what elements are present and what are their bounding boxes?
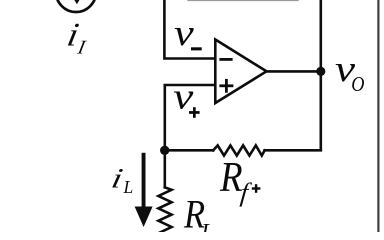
- current source I_I: [56, 0, 96, 12]
- svg-text:L: L: [123, 177, 134, 197]
- resistor Rf+: [213, 145, 264, 155]
- node vO junction dot: [316, 67, 325, 76]
- svg-text:v: v: [173, 75, 194, 116]
- op-amp U1: [215, 40, 266, 104]
- arrow i_L (load current): [135, 153, 153, 227]
- svg-text:v: v: [174, 13, 195, 54]
- label R_L: [183, 193, 214, 240]
- svg-text:f: f: [239, 177, 253, 207]
- label v_O: [335, 48, 364, 96]
- label v-: [174, 13, 202, 54]
- wire: non-inverting input L from node: [165, 85, 215, 150]
- label v+: [173, 75, 199, 118]
- wire: op-amp output to vO node: [267, 70, 321, 73]
- wire: left vertical into inverting input: [164, 0, 215, 59]
- node: junction dot at v+ / load: [160, 146, 169, 155]
- wire: right vertical through vO down to feedback corner: [319, 0, 322, 150]
- top wire (cropped at image edge): [188, 0, 298, 2]
- label i_I: [64, 16, 88, 58]
- label R_f+: [219, 154, 260, 207]
- wire: node down to RL: [164, 150, 167, 187]
- svg-text:O: O: [351, 72, 364, 96]
- wire: bottom feedback horizontal (right part): [265, 149, 321, 152]
- resistor RL: [158, 187, 171, 233]
- svg-text:R: R: [219, 154, 243, 201]
- op-amp inverting pin marker: [221, 58, 231, 61]
- op-amp non-inverting pin marker: [221, 80, 232, 91]
- svg-text:L: L: [200, 219, 213, 232]
- label i_L: [109, 162, 133, 197]
- right page border line: [377, 0, 379, 232]
- wire: bottom feedback horizontal (left part): [165, 149, 214, 152]
